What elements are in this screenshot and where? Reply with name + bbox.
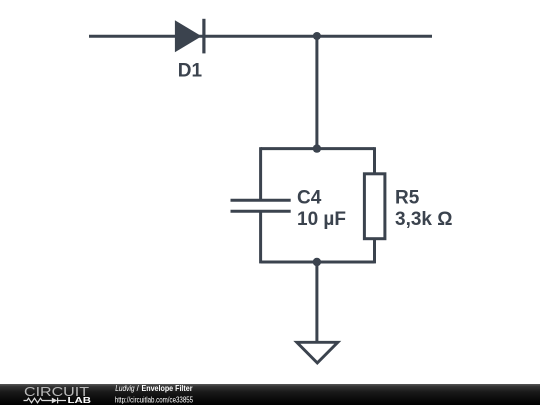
wire left branch lower [259, 211, 262, 263]
wire right branch lower [373, 238, 376, 263]
svg-text:D1: D1 [178, 61, 203, 82]
node junction loop bottom [313, 258, 321, 266]
node junction loop top [313, 144, 321, 152]
svg-text:Ludvig: Ludvig [115, 384, 135, 393]
wire top horizontal (anode side + cathode side) [89, 35, 432, 38]
footer title text [115, 384, 192, 393]
wire to ground [315, 262, 318, 342]
label C4 value [297, 187, 346, 229]
node junction top [313, 32, 321, 40]
svg-text:C4: C4 [297, 187, 322, 208]
logo resistor zigzag and diode [24, 398, 67, 404]
diode D1 [175, 19, 204, 54]
wire vertical from top node to loop [315, 36, 318, 148]
resistor R5 [364, 174, 385, 239]
svg-text:3,3k Ω: 3,3k Ω [395, 209, 453, 230]
svg-text:LAB: LAB [68, 395, 92, 405]
svg-text:http://circuitlab.com/ce33855: http://circuitlab.com/ce33855 [115, 395, 194, 404]
svg-text:R5: R5 [395, 187, 420, 208]
ground [297, 342, 338, 363]
footer bar [0, 384, 540, 405]
wire right branch upper [373, 147, 376, 174]
label R5 value [395, 187, 453, 229]
wire loop bottom horizontal [261, 261, 375, 264]
wire loop top horizontal [261, 147, 375, 150]
capacitor C4 [231, 200, 291, 211]
svg-text:Envelope Filter: Envelope Filter [142, 384, 193, 393]
wire left branch upper [259, 147, 262, 200]
svg-text:10 µF: 10 µF [297, 209, 346, 230]
